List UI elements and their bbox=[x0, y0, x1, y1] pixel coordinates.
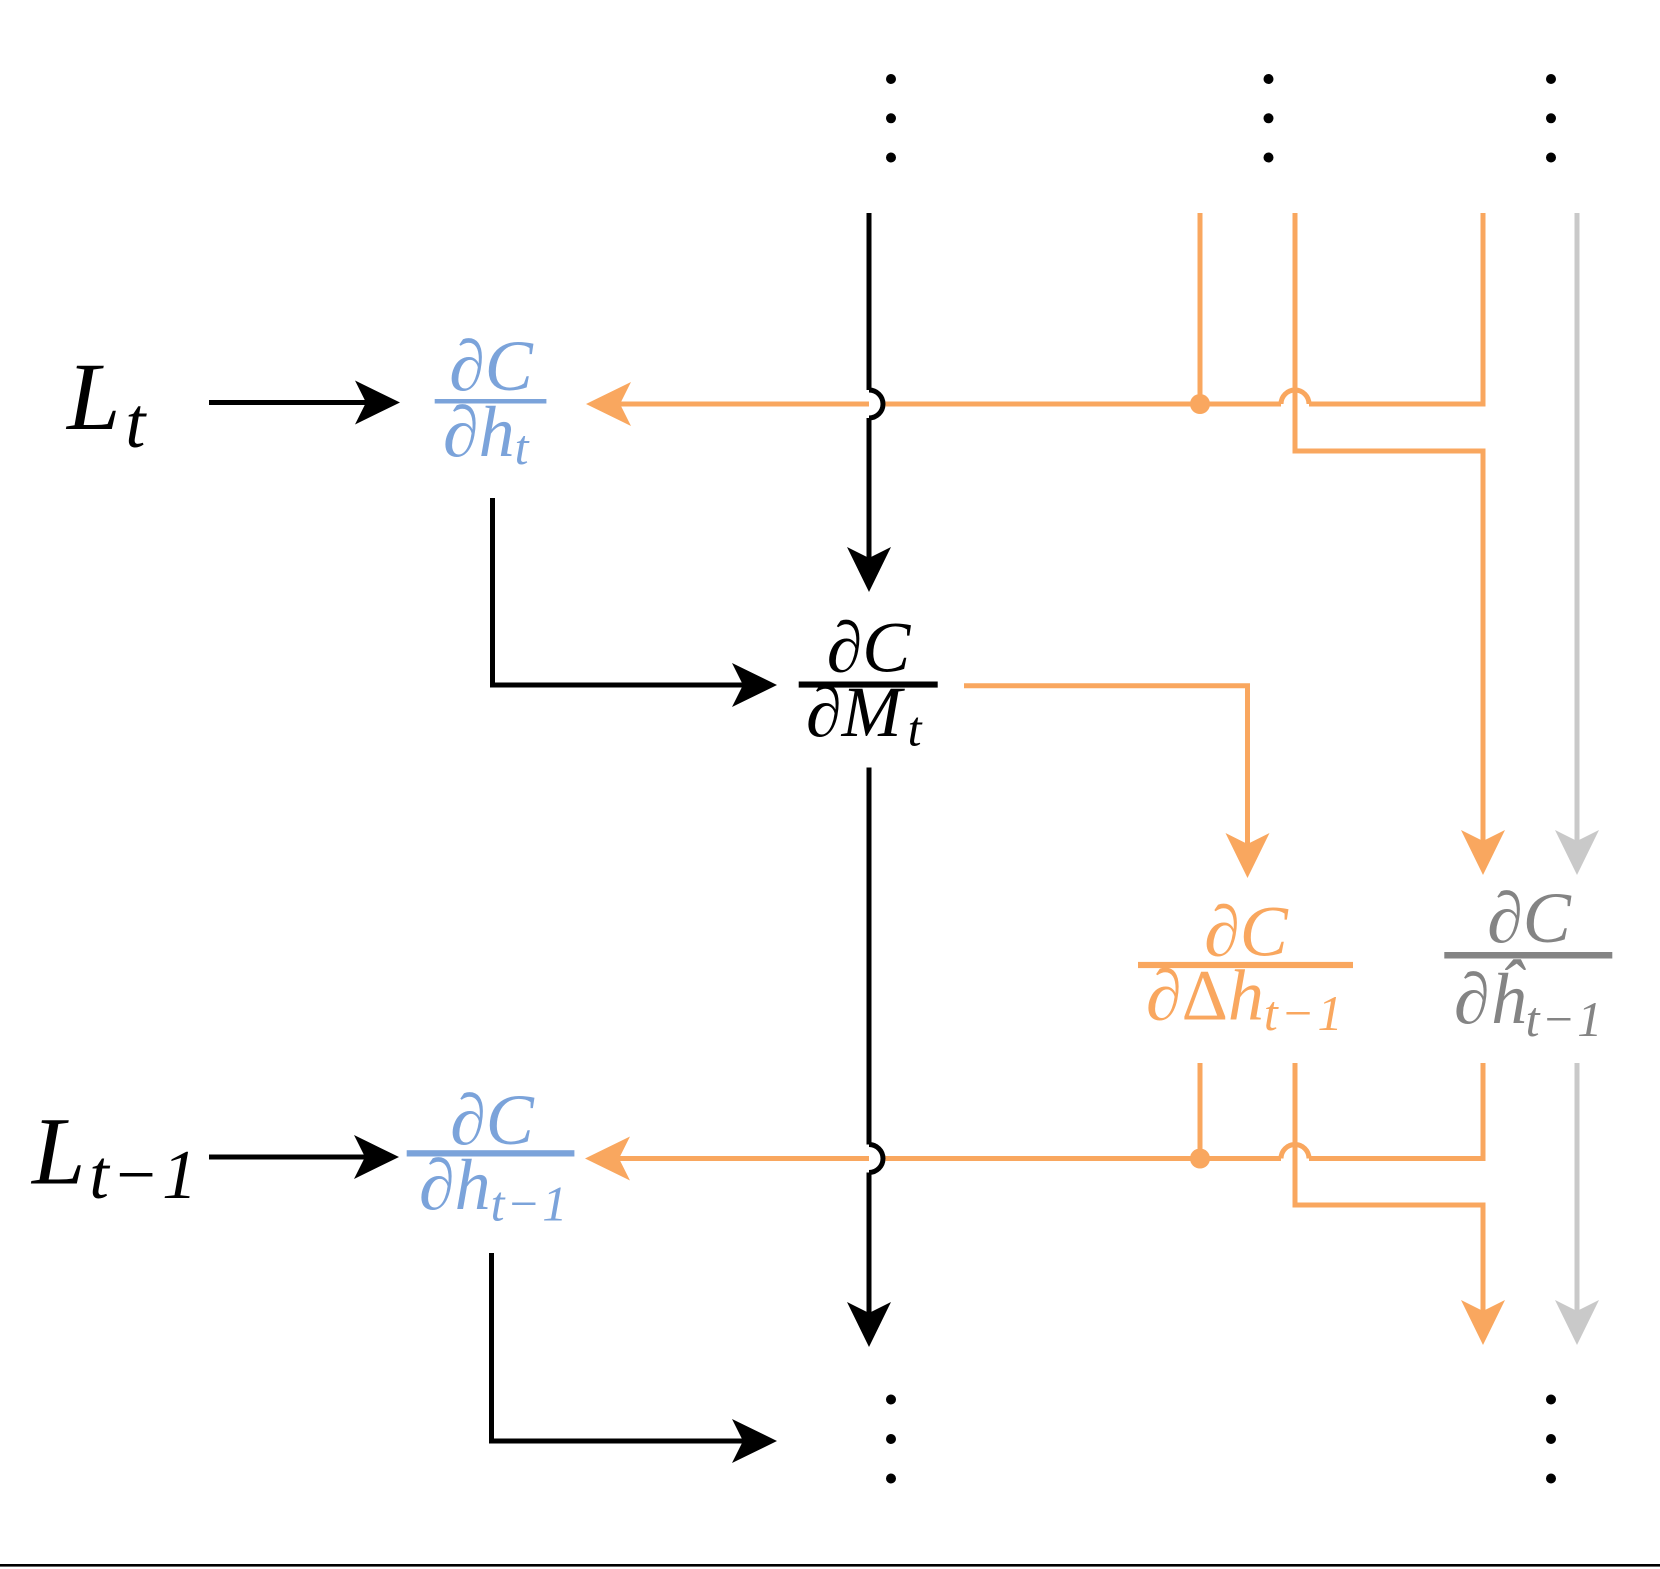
label: fraction dC/dhhat_t-1 (gray) bbox=[1444, 878, 1612, 1047]
wire: orange row t-1 horizontal with junction dot and hop bbox=[619, 1063, 1483, 1159]
node: bottom ellipsis column 1 bbox=[886, 1395, 896, 1484]
label: fraction dC/dh_t-1 (blue) bbox=[407, 1080, 575, 1232]
wire: orange row-t horizontal into dC/dh_t, with junction dot and hop over column B bbox=[620, 213, 1483, 404]
node: top ellipsis column 1 (above black wire) bbox=[886, 74, 896, 163]
wire: orange column B with jog right then down to dC/dhhat arrow bbox=[1295, 213, 1483, 841]
wire: orange column B stub (row t-1) jog to arrow bbox=[1295, 1063, 1483, 1311]
arrowhead: black down into dC/dMt bbox=[847, 547, 891, 592]
wire: black elbow from dC/dh_t down-right into dC/dM_t bbox=[493, 498, 767, 685]
svg-text:∂C: ∂C bbox=[1487, 878, 1572, 958]
node: top ellipsis column 2 bbox=[1264, 74, 1274, 163]
wire: black main vertical, segment between dC/dM_t and row t-1 with hop bbox=[869, 1142, 886, 1175]
arrowhead: black right bbox=[355, 381, 400, 425]
arrowhead: orange left into dC/dh_t-1 bbox=[585, 1137, 630, 1181]
node: bottom ellipsis column 2 bbox=[1546, 1395, 1556, 1484]
wire: gray column D (row t) bbox=[1575, 213, 1580, 841]
label: fraction dC/dM_t (black) bbox=[799, 608, 938, 757]
label: fraction dC/dDelta-h_t-1 (orange) bbox=[1138, 892, 1353, 1041]
arrowhead: orange down at (1483,1345) bbox=[1461, 1300, 1505, 1345]
arrowhead: orange left into dC/dh_t bbox=[586, 382, 631, 426]
wire: gray column D (row t-1) bbox=[1575, 1063, 1580, 1311]
wire: black main vertical, segment above row t with hop over orange row-t wire bbox=[869, 388, 886, 421]
arrowhead: black down at (869,1347) bbox=[847, 1302, 891, 1347]
node: top ellipsis column 3 bbox=[1546, 74, 1556, 163]
wire: arrow L_t-1 to dC/dh_t-1 bbox=[209, 1155, 365, 1160]
node: orange junction dot row t bbox=[1190, 394, 1210, 414]
wire: orange column A stub (row t-1) to junction dot bbox=[1198, 1063, 1203, 1159]
wire: orange column C stub (row t-1) bbox=[1481, 1063, 1486, 1159]
arrowhead: orange down at (1247.5,878) bbox=[1226, 833, 1270, 878]
arrowhead: orange down at (1483,875) bbox=[1461, 830, 1505, 875]
wire: black elbow from dC/dh_t-1 down-right bbox=[492, 1253, 767, 1441]
label: fraction dC/dh_t (blue) bbox=[435, 326, 547, 475]
arrowhead: black right bbox=[354, 1135, 399, 1179]
arrowhead: gray down at (1577,875) bbox=[1555, 830, 1599, 875]
arrowhead: black right into dC/dM_t bbox=[732, 663, 777, 707]
wire: arrow L_t to dC/dh_t bbox=[209, 400, 366, 405]
arrowhead: black right at (777,1441) bbox=[732, 1419, 777, 1463]
wire: bottom rule bbox=[0, 1564, 1660, 1567]
wire: orange elbow from dC/dM_t right then down into dC/dDelta-h bbox=[964, 686, 1248, 844]
arrowhead: gray down at (1577,1345) bbox=[1555, 1300, 1599, 1345]
node: orange junction dot row t-1 bbox=[1190, 1149, 1210, 1169]
wire: orange column A (from top to junction dot, row t) bbox=[1198, 213, 1203, 404]
